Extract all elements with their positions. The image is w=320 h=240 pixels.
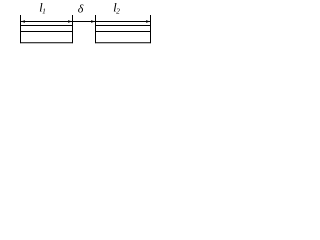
svg-text:δ: δ [78,2,84,16]
background [0,0,158,53]
left bar top edge [21,25,73,27]
extension tick / bar edge x=150 [150,15,152,43]
dimension line [21,21,151,23]
extension tick / bar edge x=20.5 [20,15,22,43]
right bar bottom edge [96,42,151,44]
rail joint dimension figure [0,0,158,53]
arrow right tip x=95.5 [91,20,96,23]
left bar bottom edge [21,42,73,44]
extension tick / bar edge x=95.5 [95,15,97,43]
left bar inner line [21,31,73,33]
extension tick / bar edge x=72.5 [72,15,74,43]
arrow right tip x=72.5 [68,20,73,23]
arrow left tip x=20.5 [21,20,26,23]
right bar top edge [96,25,151,27]
arrow right tip x=150 [146,20,151,23]
right bar inner line [96,31,151,33]
